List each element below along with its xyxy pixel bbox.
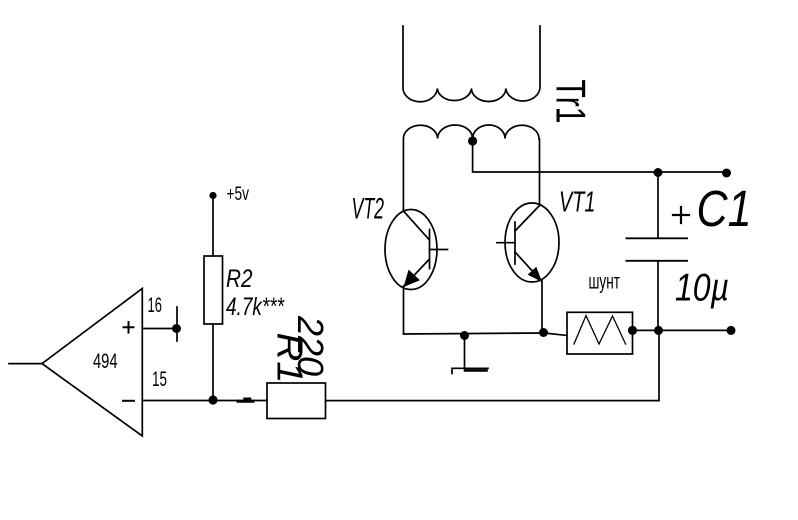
svg-text:15: 15 (152, 368, 167, 391)
capacitor C1 plus sign (673, 207, 689, 223)
transistor VT1 collector diagonal (515, 206, 540, 232)
op-amp U1 triangle (42, 289, 142, 437)
svg-text:C1: C1 (697, 180, 752, 237)
svg-text:VT1: VT1 (559, 187, 596, 219)
node VT1 emitter junction (539, 328, 548, 337)
node shunt right (628, 326, 637, 335)
wire pin 15 to R1 (142, 400, 267, 402)
wire VT2 emitter down (403, 286, 405, 334)
transistor VT1 base lead stub (497, 242, 515, 244)
svg-text:R2: R2 (226, 265, 253, 293)
wire +5v to R2 (212, 198, 214, 256)
svg-text:+5v: +5v (227, 184, 250, 205)
node bottom rail at C1 (654, 326, 663, 335)
transistor VT2 base bar (429, 230, 431, 269)
svg-text:16: 16 (148, 294, 163, 317)
resistor shunt zigzag (574, 316, 626, 344)
wire joint blob before R1 (238, 400, 253, 403)
transistor VT2 body (385, 210, 437, 290)
wire secondary right end down to VT1 collector (539, 139, 541, 206)
op-amp plus marking (124, 322, 134, 333)
wire secondary left end down to VT2 collector (402, 139, 404, 211)
transformer Tr1 secondary winding (403, 125, 539, 139)
node pin 16 (172, 324, 181, 333)
resistor shunt box (567, 312, 633, 354)
node R2 bottom junction (208, 395, 217, 404)
node ground junction (460, 331, 469, 340)
transistor VT2 emitter diagonal (404, 259, 430, 286)
svg-text:4.7k***: 4.7k*** (226, 293, 285, 321)
svg-text:R1: R1 (270, 333, 311, 384)
node bottom rail right end (727, 326, 736, 335)
wire op-amp input left (9, 363, 42, 365)
transistor VT1 body (505, 203, 559, 282)
svg-text:VT2: VT2 (352, 193, 385, 226)
transformer Tr1 primary winding (403, 26, 540, 102)
svg-text:шунт: шунт (589, 270, 621, 293)
wire pin 16 (142, 328, 176, 330)
resistor R1 box (267, 383, 326, 419)
transistor VT2 base lead stub (430, 249, 448, 251)
wire bottom rail (633, 329, 732, 331)
pin 16 tick (176, 307, 178, 341)
svg-text:Tr1: Tr1 (548, 80, 595, 124)
resistor R2 box (204, 256, 223, 324)
node center tap (468, 136, 477, 145)
ground (464, 336, 466, 368)
transistor VT2 collector diagonal (403, 211, 429, 240)
wire VT1 emitter down (541, 281, 543, 333)
transistor VT1 emitter arrow (528, 267, 542, 282)
transistor VT1 base bar (514, 222, 516, 264)
wire emitters bottom bus (404, 333, 545, 334)
wire R2 to pin15 wire (212, 324, 214, 400)
transistor VT2 emitter arrow (404, 270, 421, 287)
node top rail at C1 (654, 168, 663, 177)
power +5v terminal (209, 192, 216, 199)
node top rail right end (722, 169, 731, 178)
svg-text:494: 494 (93, 349, 118, 373)
svg-text:10µ: 10µ (675, 266, 729, 309)
capacitor C1 (657, 173, 659, 239)
wire R1 to bottom rail (326, 330, 660, 400)
op-amp minus marking (123, 400, 134, 402)
wire VT1 emitter to shunt (544, 333, 567, 336)
wire center tap down and right to top rail end (473, 141, 727, 172)
transistor VT1 emitter diagonal (515, 252, 542, 281)
